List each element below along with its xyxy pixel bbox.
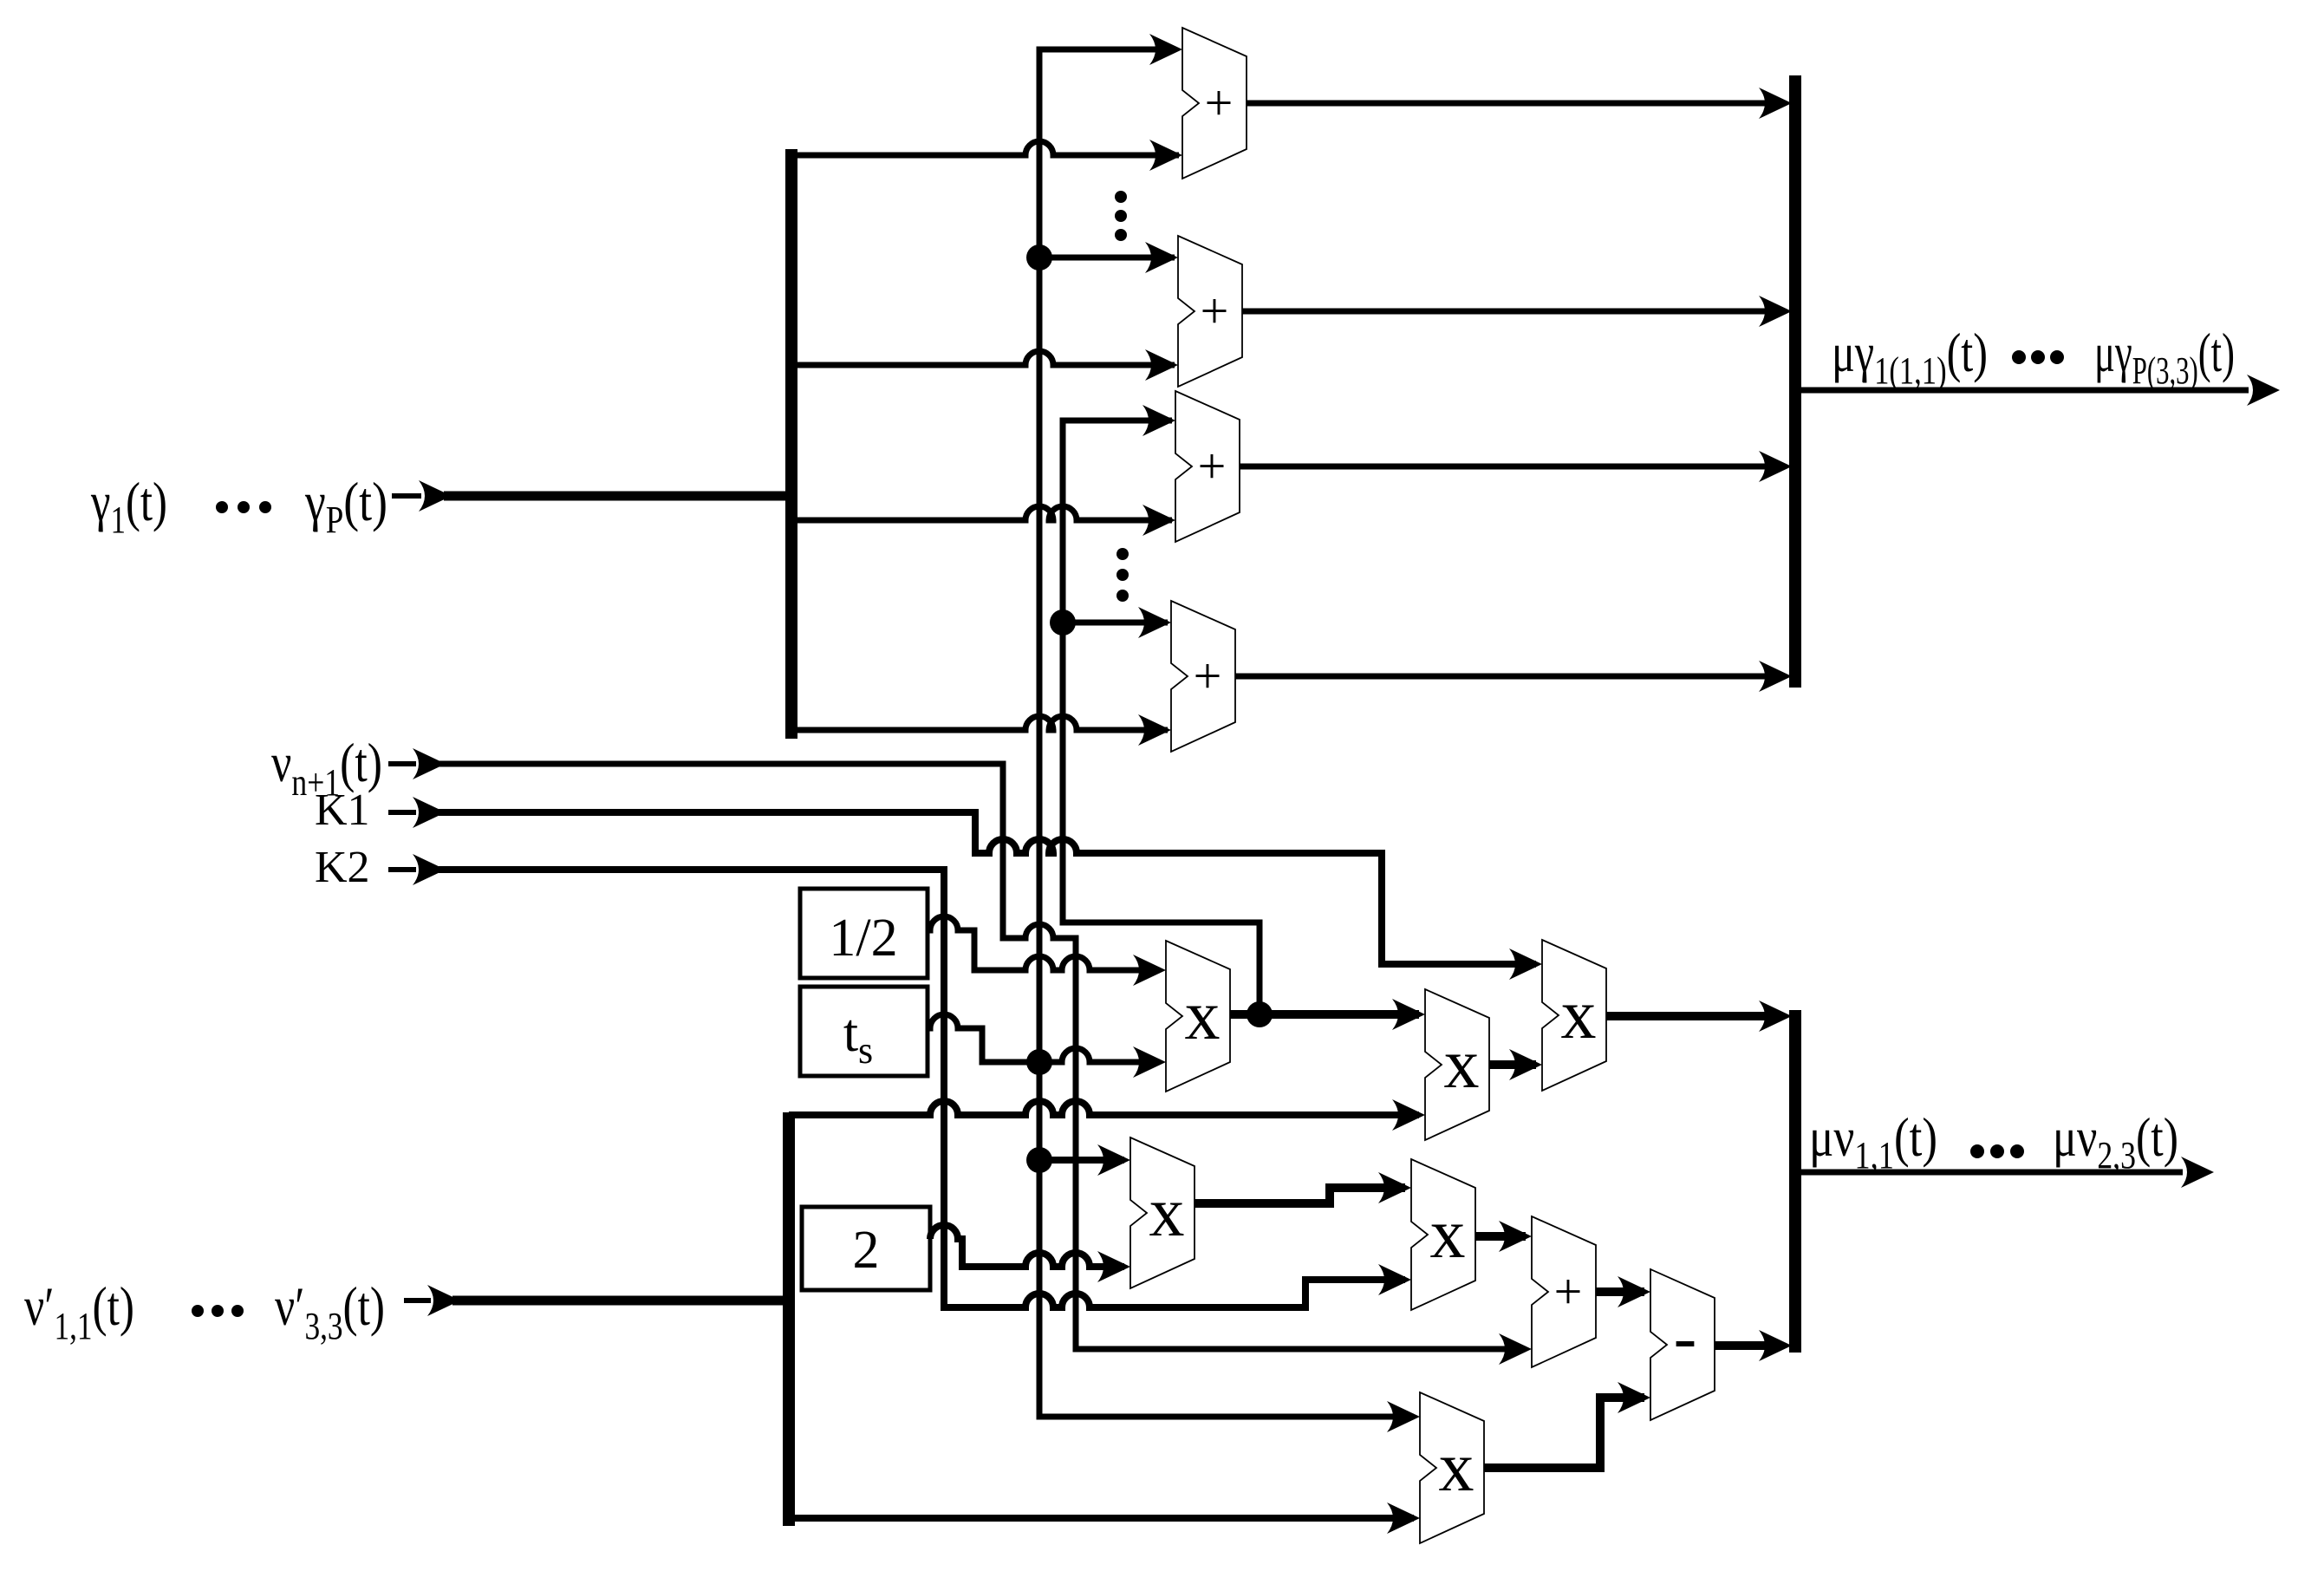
wire 1/2 output to multiplier M1 in1 [928,916,1166,986]
box constant 1/2 [800,889,928,978]
wire nu-prime input bus [452,1296,789,1306]
wire gamma branch 2 to adder U2 in2 [791,349,1178,381]
wire adder U3 output [1240,451,1792,482]
wire bottom bus output arrow [1801,1157,2214,1188]
node bottom output label [1809,1106,2178,1177]
wire K2 route to multiplier M5 in2 [439,870,1411,1307]
wire M6 output to subtractor U6 in2 [1484,1382,1650,1468]
multiplier M5 [1411,1159,1475,1310]
wire M5 output to adder U5 in1 [1475,1221,1532,1252]
multiplier M4 [1130,1138,1195,1288]
svg-text:x: x [1561,975,1597,1053]
wire 2 output to multiplier M4 in2 [930,1225,1130,1282]
wire adder U2 output [1242,296,1792,327]
svg-text:K2: K2 [315,843,370,892]
wire ts output to multiplier M1 in2 [928,1014,1166,1078]
adder U5 [1532,1216,1596,1367]
adder U1 [1182,28,1247,179]
svg-text:2: 2 [853,1221,880,1280]
wire gamma input arrow [392,480,452,512]
svg-text:1/2: 1/2 [829,909,897,968]
wire gamma branch 1 to adder U1 in2 [791,140,1182,171]
svg-text:x: x [1444,1024,1480,1103]
multiplier M2 [1425,989,1489,1140]
node bottom output bus bar [1789,1010,1801,1353]
junction dot ts line on V1199 [1026,1049,1052,1075]
multiplier M3 [1542,940,1606,1091]
wire nu_n+1 route to plus-block in2 [439,764,1532,1365]
node top output label [1832,322,2235,392]
junction dot on M1 output [1247,1001,1273,1027]
node ellipsis between U3 and U4 [1116,548,1129,602]
wire M2 output to M3 in2 [1489,1049,1542,1080]
node gamma input label [90,471,387,541]
adder U4 [1171,601,1235,752]
wire adder U4 output [1235,661,1792,692]
node gamma splitter bar [785,149,797,739]
adder U3 [1175,391,1240,542]
wire top bus output arrow [1801,375,2280,406]
wire K2 input arrow [388,854,446,885]
svg-text:+: + [1198,438,1227,494]
junction dot on V1199 feeding adder U2 [1026,244,1052,271]
subtractor U6 [1650,1269,1715,1420]
svg-text:+: + [1201,283,1229,339]
svg-text:x: x [1430,1194,1466,1273]
multiplier M6 [1420,1392,1484,1543]
adder U2 [1178,236,1242,387]
wire K1 route to multiplier M3 in1 [439,812,1542,980]
wire U5 output to subtractor U6 in1 [1596,1276,1650,1307]
svg-text:x: x [1149,1172,1185,1251]
wire nu-prime input arrow [404,1285,460,1316]
box constant ts [800,987,928,1076]
svg-text:K1: K1 [315,785,370,835]
svg-text:+: + [1205,75,1234,131]
svg-text:x: x [1439,1427,1474,1506]
multiplier M1 [1166,941,1230,1092]
junction dot on V1226 feeding adder U4 [1050,609,1076,636]
node top output bus bar [1789,75,1801,688]
junction dot on V1199 feeding M4 [1026,1147,1052,1173]
node nu-prime input label [24,1275,385,1347]
node top output ellipsis [2012,350,2064,364]
wire adder U4 in1 from V1226 [1063,607,1171,638]
wire gamma branch 4 to adder U4 in2 [791,714,1171,746]
wire gamma input bus [444,492,791,501]
node ellipsis between U1 and U2 [1115,191,1127,241]
wire gamma branch 3 to adder U3 in2 [791,505,1175,536]
wire K1 input arrow [388,797,446,828]
wire nu-prime branch to multiplier M6 in2 [789,1503,1420,1534]
wire nu-prime branch to multiplier M2 in2 [789,1099,1425,1131]
wire V1199 to multiplier M4 in1 [1039,1144,1130,1176]
wire adder U1 output [1247,88,1792,119]
svg-text:+: + [1194,648,1222,704]
wire V1226 vertical net with U3 in1 corner and M1-output junction riser [1063,405,1260,1014]
wire M3 output to bottom bus [1606,1001,1792,1032]
node nu-prime splitter bar [783,1112,795,1526]
node gamma input ellipsis [216,501,271,513]
wire V1199 vertical net with U1 in1 and M6 in1 corners [1039,34,1420,1432]
svg-text:x: x [1185,975,1221,1054]
wire M1 output to M2 in1 [1230,999,1425,1030]
svg-text:γ1(t): γ1(t) [90,471,167,541]
node bottom output ellipsis [1970,1144,2024,1158]
wire U6 output to bottom bus [1715,1330,1792,1361]
svg-text:-: - [1674,1300,1697,1376]
svg-text:γP(t): γP(t) [304,471,387,541]
wire M4 output to M5 in1 [1195,1172,1411,1203]
wire adder U2 in1 from V1199 [1039,242,1178,273]
svg-text:+: + [1554,1263,1583,1320]
wire nu_n+1 input arrow [388,748,446,779]
box constant 2 [802,1207,930,1290]
node nu-prime input ellipsis [192,1305,244,1317]
